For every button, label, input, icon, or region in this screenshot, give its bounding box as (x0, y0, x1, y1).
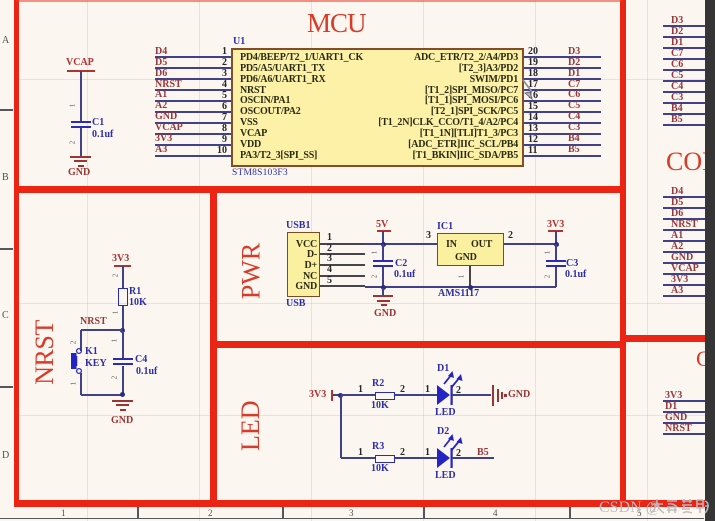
U1 part number (232, 168, 288, 178)
node A1 (671, 231, 683, 241)
section divider right CON (620, 335, 706, 342)
IC1 GND pin wire (469, 266, 471, 286)
wire R1 to node NRST (122, 306, 124, 331)
wire U1 pin 9 net 3V3 (155, 144, 231, 146)
watermark hanzi (650, 498, 710, 515)
junction C2/GND (381, 285, 386, 290)
pin number 18 (528, 69, 538, 79)
junction NRST node (120, 328, 125, 333)
pin number mark (458, 275, 465, 279)
node D1 (568, 69, 580, 79)
pin number mark (111, 376, 118, 380)
section divider bottom (14, 500, 708, 507)
wire switch to bottom node (80, 373, 82, 395)
pin number mark (371, 275, 378, 279)
pin number 20 (528, 47, 538, 57)
pin number 13 (528, 124, 538, 134)
pin name OSCOUT/PA2 (240, 106, 301, 117)
node A3 (671, 286, 683, 296)
wire connector net C5 (663, 80, 705, 82)
wire U1 pin 4 net NRST (155, 89, 231, 91)
node B4 (671, 104, 683, 114)
wire VCC to IC1 IN (365, 243, 437, 245)
pin name [T2_1]SPI_SCK/PC5 (330, 106, 518, 117)
wire U1 pin 16 net C6 (524, 100, 601, 102)
wire connector net 3V3 (663, 400, 705, 402)
node C3 (568, 123, 580, 133)
wire 3V3 to junction (333, 394, 342, 396)
pin name PA3/T2_3[SPI_SS] (240, 150, 317, 161)
pin number 14 (528, 113, 538, 123)
regulator IC1 body (437, 233, 504, 266)
pin number mark (112, 274, 119, 278)
wire connector net D6 (663, 218, 705, 220)
wire connector net A1 (663, 240, 705, 242)
wire U1 pin 19 net D2 (524, 67, 601, 69)
wire U1 pin 3 net D6 (155, 78, 231, 80)
pin number mark (112, 311, 119, 315)
node D3 (671, 16, 683, 26)
node VCAP (671, 264, 699, 274)
pin name [T2_3]A3/PD2 (330, 63, 518, 74)
node D4 (671, 187, 683, 197)
power port 3V3 (LED) (309, 390, 326, 400)
pin number 16 (528, 91, 538, 101)
pin number 7 (204, 113, 227, 123)
power port 3V3 (PWR) (547, 220, 564, 230)
IC1 part AMS1117 (438, 289, 479, 299)
pin number mark (544, 251, 551, 255)
section divider PWR/LED (210, 341, 626, 348)
pin name VDD (240, 139, 261, 150)
wire node to R3 (341, 457, 375, 459)
wire connector net GND (663, 262, 705, 264)
wire U1 pin 11 net B5 (524, 155, 601, 157)
wire U1 pin 7 net GND (155, 122, 231, 124)
wire VCAP to C1 (80, 71, 82, 121)
wire connector net D1 (663, 411, 705, 413)
wire connector net A2 (663, 251, 705, 253)
wire D2 out (452, 457, 494, 459)
pin name OSCIN/PA1 (240, 95, 290, 106)
wire U1 pin 8 net VCAP (155, 133, 231, 135)
wire C4 to GND node (122, 366, 124, 395)
wire U1 pin 5 net A1 (155, 100, 231, 102)
title PWR (242, 242, 262, 299)
wire U1 pin 1 net D4 (155, 56, 231, 58)
node D1 (671, 38, 683, 48)
U1 designator (233, 37, 245, 47)
ground (NRST) (112, 400, 133, 402)
pin number 11 (528, 146, 537, 156)
USB1 pin 2 D- (288, 249, 317, 260)
node C6 (671, 60, 683, 70)
wire connector net C3 (663, 102, 705, 104)
pin name PD6/A6/UART1_RX (240, 74, 326, 85)
wire U1 pin 18 net D1 (524, 78, 601, 80)
pin number mark (544, 275, 551, 279)
pin number mark (70, 382, 77, 386)
pin name NRST (240, 85, 266, 96)
node A2 (671, 242, 683, 252)
wire connector net GND (663, 422, 705, 424)
mouse cursor (519, 77, 539, 103)
pin name VCAP (240, 128, 267, 139)
wire C1 to GND (80, 128, 82, 156)
title MCU (307, 11, 366, 36)
section divider NRST/PWR vertical (210, 188, 217, 506)
wire U1 pin 15 net C5 (524, 111, 601, 113)
junction LED 3V3 node (338, 393, 343, 398)
watermark CSDN (599, 499, 660, 517)
node C7 (671, 49, 683, 59)
pin name PD5/A5/UART1_TX (240, 63, 325, 74)
pin number mark (70, 341, 77, 345)
node B5 (568, 145, 580, 155)
resistor R1 (118, 288, 128, 307)
wire U1 pin 6 net A2 (155, 111, 231, 113)
wire connector net D3 (663, 25, 705, 27)
pin number 4 (204, 80, 227, 90)
wire U1 pin 20 net D3 (524, 56, 601, 58)
ground (LED bar style) (492, 385, 494, 406)
node NRST (155, 80, 182, 90)
wire U1 pin 14 net C4 (524, 122, 601, 124)
pin name PD4/BEEP/T2_1/UART1_CK (240, 52, 363, 63)
node C5 (671, 71, 683, 81)
node C3 (671, 93, 683, 103)
resistor R2 (375, 392, 395, 400)
node 3V3 (155, 134, 172, 144)
wire connector net C4 (663, 91, 705, 93)
node GND (155, 112, 177, 122)
title NRST (35, 320, 54, 385)
pin number mark (371, 251, 378, 255)
node A3 (155, 145, 167, 155)
pin name SWIM/PD1 (330, 74, 518, 85)
node D4 (155, 47, 167, 57)
pin number 5 (204, 91, 227, 101)
title LED (241, 401, 261, 451)
pin number 15 (528, 102, 538, 112)
node D1 (665, 402, 677, 412)
ground below C1 (70, 156, 91, 158)
wire connector net C7 (663, 58, 705, 60)
wire NRST node horizontal (81, 329, 123, 331)
capacitor C2 (382, 244, 384, 261)
junction 5V node (381, 242, 386, 247)
pin number 6 (204, 102, 227, 112)
pin number 17 (528, 80, 538, 90)
wire GND bus (365, 286, 556, 288)
node B5 (671, 115, 683, 125)
LED D1 (433, 367, 467, 407)
node D5 (671, 198, 683, 208)
wire bottom horizontal (81, 394, 123, 396)
node NRST (80, 317, 107, 327)
wire 5V stem (382, 231, 384, 244)
wire U1 pin 12 net B4 (524, 144, 601, 146)
pin name [T1_2]SPI_MISO/PC7 (330, 85, 518, 96)
wire connector net B4 (663, 113, 705, 115)
node D3 (568, 47, 580, 57)
LED D2 (433, 430, 467, 470)
wire connector net 3V3 (663, 284, 705, 286)
section divider under MCU (14, 186, 626, 193)
pin number mark (111, 339, 118, 343)
wire connector net D4 (663, 196, 705, 198)
capacitor C3 (555, 244, 557, 261)
pin number mark (69, 141, 76, 145)
node D6 (155, 69, 167, 79)
USB1 pin 1 VCC (288, 239, 317, 250)
pin number mark (69, 104, 76, 108)
pin number 19 (528, 58, 538, 68)
capacitor C4 (122, 331, 124, 358)
node NRST (665, 424, 692, 434)
node D5 (155, 58, 167, 68)
pin name VSS (240, 117, 258, 128)
wire connector net VCAP (663, 273, 705, 275)
pin number 10 (204, 146, 227, 156)
node C7 (568, 80, 580, 90)
wire 3V3 to R1 (122, 266, 124, 288)
wire connector net D1 (663, 47, 705, 49)
pin number 3 (204, 69, 227, 79)
pin name [T1_1]SPI_MOSI/PC6 (330, 95, 518, 106)
power port 3V3 (NRST) (112, 254, 129, 264)
pin number 1 (204, 47, 227, 57)
wire connector net D5 (663, 207, 705, 209)
capacitor C1 (71, 121, 91, 124)
wire U1 pin 17 net C7 (524, 89, 601, 91)
wire connector net A3 (663, 295, 705, 297)
wire U1 pin 2 net D5 (155, 67, 231, 69)
pin number 12 (528, 135, 538, 145)
node B4 (568, 134, 580, 144)
screen dark band (705, 0, 715, 521)
section divider top edge (16, 0, 622, 2)
title C (cut off) (696, 349, 711, 369)
node A1 (155, 90, 167, 100)
wire connector net C6 (663, 69, 705, 71)
node VCAP (155, 123, 183, 133)
MCU IC U1 STM8S103F3 body (231, 48, 524, 167)
USB1 pin 5 GND (288, 281, 317, 292)
wire R2 to D1 (395, 394, 438, 396)
pin name [T1_2N]CLK_CCO/T1_4/A2/PC4 (330, 117, 518, 128)
pin number 8 (204, 124, 227, 134)
node A2 (155, 101, 167, 111)
wire R3 to D2 (395, 457, 438, 459)
node C5 (568, 101, 580, 111)
pin number 2 (204, 58, 227, 68)
node D2 (671, 27, 683, 37)
node D6 (671, 209, 683, 219)
section divider vertical right (620, 0, 626, 506)
power port 5V (376, 220, 388, 230)
pin name [T1_1N][TLI]T1_3/PC3 (330, 128, 518, 139)
USB1 designator (286, 221, 310, 231)
node D2 (568, 58, 580, 68)
IC1 pin 2 wire to 3V3 (504, 243, 556, 245)
USB1 part name (286, 299, 305, 309)
pin name [ADC_ETR]IIC_SCL/PB4 (330, 139, 518, 150)
node GND (665, 413, 687, 423)
node 3V3 (671, 275, 688, 285)
node 3V3 (665, 391, 682, 401)
IC1 pin name OUT (471, 239, 492, 250)
resistor R3 (375, 455, 395, 463)
wire U1 pin 10 net A3 (155, 155, 231, 157)
wire left branch down to switch (80, 330, 82, 351)
USB1 pin 3 D+ (288, 260, 317, 271)
wire connector net NRST (663, 433, 705, 435)
wire D1 out (452, 394, 491, 396)
title CON (666, 150, 715, 173)
power port VCAP (66, 58, 94, 68)
IC1 pin 3 number (426, 231, 431, 241)
connector USB1 body (287, 232, 320, 297)
node GND (671, 253, 693, 263)
section divider vertical left (14, 0, 20, 506)
USB1 pin 4 NC (288, 271, 317, 282)
pin number 9 (204, 135, 227, 145)
node NRST (671, 220, 698, 230)
switch K1 KEY (68, 345, 88, 377)
wire connector net NRST (663, 229, 705, 231)
IC1 pin name IN (446, 239, 457, 250)
junction IC1 GND (468, 285, 473, 290)
wire junction down to R3 row (340, 395, 342, 458)
IC1 pin name GND (455, 252, 477, 263)
wire node to R2 (341, 394, 375, 396)
IC1 designator (437, 222, 453, 232)
junction 3V3 node (554, 242, 559, 247)
node B5 (477, 448, 489, 458)
pin name [T1_BKIN]IIC_SDA/PB5 (330, 150, 518, 161)
node C4 (671, 82, 683, 92)
node C4 (568, 112, 580, 122)
wire connector net B5 (663, 124, 705, 126)
wire U1 pin 13 net C3 (524, 133, 601, 135)
node C6 (568, 90, 580, 100)
ground (PWR) (382, 288, 384, 296)
pin name ADC_ETR/T2_2/A4/PD3 (330, 52, 518, 63)
junction GND node (NRST) (120, 392, 125, 397)
wire connector net D2 (663, 36, 705, 38)
